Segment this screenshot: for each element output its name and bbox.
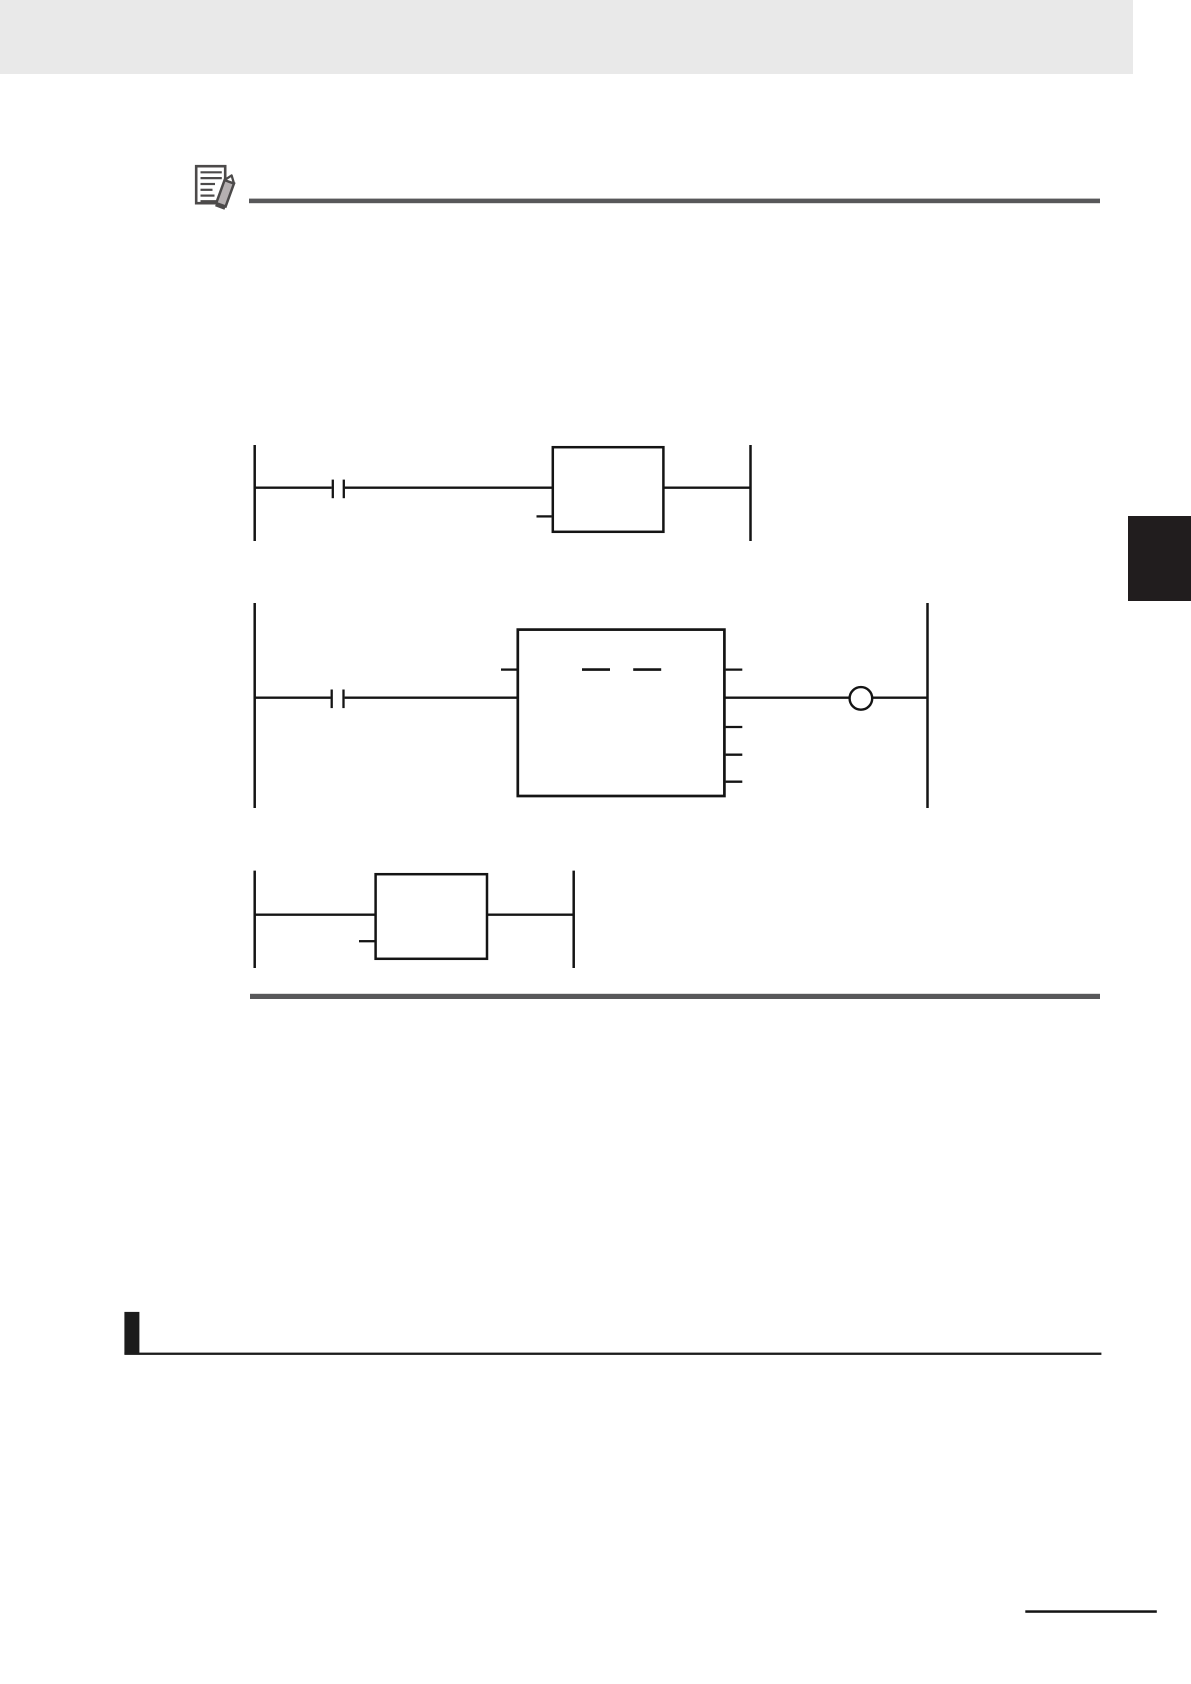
note section top rule [249,199,1100,204]
rung 2 function block name dash 1 [582,668,610,671]
rung 1 output wire [663,487,751,489]
rung 1 right power rail [749,445,752,541]
rung 1 function block lower-left pin stub [537,515,552,517]
rung 1 wire from contact to function block [345,487,553,489]
rung 2 output wire to coil [725,697,850,699]
side index tab [1128,516,1191,601]
rung 2 function block right pin stub 2 [726,726,743,728]
page header band [0,0,1133,74]
rung 3 wire from rail to function block [254,914,377,916]
rung 2 left power rail [253,603,256,808]
rung 1 left power rail [253,445,256,541]
rung 2 function block upper-right pin stub [726,668,743,670]
rung 3 output wire [487,914,574,916]
rung 3 function block [376,874,487,959]
rung 2 NO contact [332,690,344,709]
rung 3 function block lower-left pin stub [359,940,375,942]
note section bottom rule [250,994,1100,999]
rung 2 function block name dash 2 [633,668,661,671]
rung 3 left power rail [253,871,256,968]
rung 2 wire from rail to contact [254,697,331,699]
rung 1 NO contact [333,480,344,499]
rung 2 output coil [850,687,873,710]
rung 2 wire from contact to function block [345,697,518,699]
rung 2 function block right pin stub 3 [726,754,743,756]
rung 2 function block [518,630,725,796]
rung 3 right power rail [572,871,575,968]
rung 2 function block upper-left pin stub [501,668,517,670]
rung 2 wire from coil to right rail [872,697,928,699]
note icon (document with pen) [196,166,236,210]
rung 2 function block right pin stub 4 [726,781,743,783]
rung 1 wire from rail to contact [254,487,332,489]
section heading rule [124,1353,1101,1355]
section heading black bar [124,1312,139,1354]
footer page rule [1025,1610,1157,1613]
rung 2 right power rail [926,603,929,808]
rung 1 function block [553,447,664,532]
